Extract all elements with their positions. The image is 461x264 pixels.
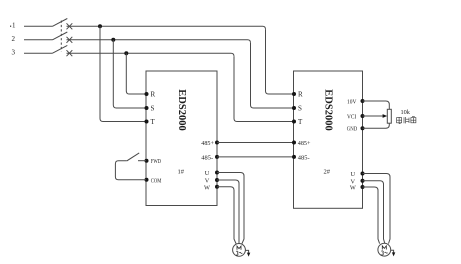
breaker QS contact X pole 3 — [67, 50, 73, 56]
U1 pin dot 485- — [215, 155, 219, 159]
svg-text:W: W — [350, 185, 356, 192]
wire U2.V to motor M2 — [363, 181, 385, 244]
U2 pin dot U — [361, 172, 365, 176]
wire phase1 down to U2.R — [266, 29, 294, 94]
wire U1.V to motor M1 — [217, 180, 239, 243]
svg-text:COM: COM — [151, 177, 162, 184]
svg-text:R: R — [151, 91, 156, 99]
U1 pin dot W — [215, 185, 219, 189]
svg-text:R: R — [298, 91, 303, 99]
svg-text:10V: 10V — [347, 98, 357, 105]
U1 pin dot R — [145, 92, 149, 96]
U1 pin dot S — [145, 106, 149, 110]
motor M1 ground arrow — [245, 250, 248, 252]
wire phase2 down to U2.S — [251, 43, 294, 108]
motor M2 label M — [382, 246, 386, 250]
wire phase3 down to U2.T — [234, 56, 294, 121]
motor M1 label 3~ — [236, 251, 238, 255]
svg-text:1#: 1# — [178, 169, 185, 176]
U1 pin dot T — [145, 120, 149, 124]
wire U2.W to motor M2 — [363, 187, 380, 244]
svg-text:3: 3 — [12, 49, 16, 57]
svg-text:2: 2 — [12, 35, 16, 43]
svg-text:485+: 485+ — [201, 140, 214, 147]
U2 pin dot 10V — [361, 99, 365, 103]
U2 pin dot V — [361, 179, 365, 183]
breaker QS blade pole 1 — [53, 19, 68, 27]
svg-text:U: U — [351, 171, 356, 178]
motor M2 label 3~ — [381, 251, 383, 255]
U2 pin dot 485+ — [292, 141, 296, 145]
svg-text:10k: 10k — [401, 109, 411, 116]
motor M1 label M — [237, 246, 241, 250]
svg-text:U: U — [205, 170, 210, 177]
U2 pin dot GND — [361, 126, 365, 130]
switch SB blade — [127, 153, 139, 161]
label dianweiqi (potentiometer, CJK approximated) — [397, 116, 416, 123]
wire phase 1 left segment — [24, 25, 53, 27]
svg-text:485+: 485+ — [298, 140, 311, 147]
U2 pin dot R — [292, 92, 296, 96]
svg-text:EDS2000: EDS2000 — [323, 89, 334, 130]
U2 pin dot S — [292, 106, 296, 110]
switch SB left wire and return to COM — [115, 161, 146, 180]
junction dot phase1 x100 — [98, 24, 102, 28]
wire phase 3 left segment — [24, 52, 53, 54]
U1 pin dot FWD — [145, 159, 149, 163]
wire U1.W to motor M1 — [217, 187, 236, 244]
wire U2.U to motor M2 — [363, 174, 391, 244]
junction dot phase2 x113 — [111, 38, 115, 42]
U2 pin dot VCI — [361, 114, 365, 118]
potentiometer RP body — [387, 109, 391, 123]
wire phase 1 to corner — [67, 26, 266, 29]
U1 pin dot U — [215, 171, 219, 175]
inverter U1 body (EDS2000 1#) — [146, 71, 217, 206]
motor M2 circle — [378, 243, 391, 256]
wire phase 2 left segment — [24, 39, 53, 41]
svg-text:FWD: FWD — [151, 158, 162, 165]
wire phase1 down to U1.T — [100, 26, 146, 121]
U1 pin dot V — [215, 178, 219, 182]
U2 pin dot W — [361, 185, 365, 189]
potentiometer wiper arrowhead — [383, 114, 388, 118]
wire U1.U to motor M1 — [217, 173, 244, 245]
svg-text:1: 1 — [12, 21, 16, 29]
breaker QS linkage (dashed) — [60, 21, 62, 52]
U2 pin dot 485- — [292, 155, 296, 159]
svg-text:S: S — [151, 105, 155, 113]
U1 pin dot COM — [145, 178, 149, 182]
svg-text:EDS2000: EDS2000 — [176, 89, 187, 130]
svg-text:W: W — [204, 184, 210, 191]
switch SB (FWD-COM) right stub — [138, 160, 146, 162]
svg-text:VCI: VCI — [347, 113, 356, 120]
wire GND to potentiometer bottom — [363, 123, 390, 128]
breaker QS blade pole 2 — [53, 32, 68, 40]
svg-text:S: S — [298, 105, 302, 113]
svg-text:GND: GND — [347, 126, 358, 133]
wire RS485- U1 to U2 — [217, 156, 294, 158]
svg-text:T: T — [298, 118, 303, 126]
svg-text:485-: 485- — [201, 155, 213, 162]
U2 pin dot T — [292, 120, 296, 124]
svg-text:485-: 485- — [298, 155, 310, 162]
wire RS485+ U1 to U2 — [217, 142, 294, 144]
wire 10V to potentiometer top — [363, 101, 390, 109]
potentiometer wiper wire from VCI — [363, 115, 384, 117]
wire phase 3 to corner — [67, 53, 235, 56]
motor M2 ground arrow — [391, 250, 394, 252]
wire phase3 down to U1.R — [126, 53, 146, 94]
breaker QS blade pole 3 — [53, 45, 68, 53]
wire phase 2 to corner — [67, 40, 251, 43]
wire phase2 down to U1.S — [113, 40, 146, 108]
motor M1 circle — [233, 244, 246, 257]
svg-text:T: T — [151, 118, 156, 126]
breaker QS contact X pole 2 — [67, 37, 73, 43]
junction dot phase3 x126 — [124, 51, 128, 55]
breaker QS contact X pole 1 — [67, 23, 73, 29]
U1 pin dot 485+ — [215, 141, 219, 145]
svg-text:2#: 2# — [324, 169, 331, 176]
inverter U2 body (EDS2000 2#) — [294, 71, 363, 208]
